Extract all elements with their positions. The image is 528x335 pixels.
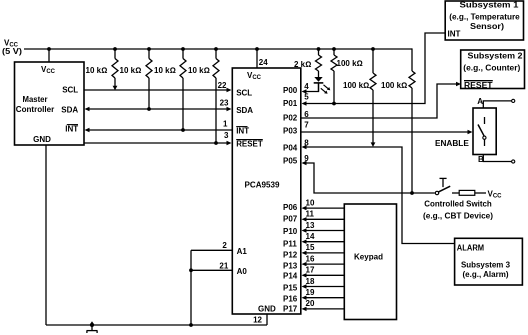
svg-text:Controller: Controller [16, 105, 55, 114]
svg-text:INT: INT [236, 127, 249, 136]
svg-text:P13: P13 [283, 262, 298, 271]
wire: P00 pin 4 to LED [302, 82, 319, 94]
Subsystem 1 box [445, 1, 523, 41]
wire: P02 pin 6 to Subsystem 2 RESET [301, 82, 461, 119]
svg-text:A0: A0 [237, 267, 248, 276]
svg-text:P12: P12 [283, 250, 298, 259]
svg-text:10 kΩ: 10 kΩ [188, 66, 210, 75]
svg-text:22: 22 [218, 81, 227, 90]
svg-text:P05: P05 [283, 157, 298, 166]
svg-text:Subsystem 1: Subsystem 1 [460, 1, 520, 10]
svg-text:P16: P16 [283, 295, 298, 304]
resistor R6 100 kOhm (P01 pull-up) [331, 49, 363, 105]
wire: RESET (Master to PCA9539 pin 3) [84, 131, 232, 145]
svg-text:PCA9539: PCA9539 [245, 180, 281, 189]
svg-text:100 kΩ: 100 kΩ [337, 59, 363, 68]
wire: P07 pin 11 to keypad [302, 210, 345, 222]
LED D1 [314, 77, 331, 94]
resistor R3 10 kOhm (INT pull-up) [154, 49, 186, 132]
svg-text:10 kΩ: 10 kΩ [86, 66, 108, 75]
svg-text:23: 23 [220, 99, 229, 108]
wire: P13 pin 16 to keypad [302, 254, 345, 266]
svg-text:P06: P06 [283, 203, 298, 212]
svg-text:P14: P14 [283, 272, 298, 281]
svg-text:A1: A1 [237, 247, 248, 256]
terminal B [478, 155, 515, 165]
svg-text:P10: P10 [283, 227, 298, 236]
svg-text:P01: P01 [283, 99, 298, 108]
svg-text:10 kΩ: 10 kΩ [120, 66, 142, 75]
svg-text:A: A [477, 97, 483, 106]
svg-text:12: 12 [253, 315, 262, 324]
ground [87, 321, 98, 333]
wire: P11 pin 14 to keypad [302, 232, 345, 244]
svg-text:21: 21 [219, 261, 228, 270]
op IC U2 PCA9539 box [232, 68, 300, 314]
svg-text:GND: GND [33, 135, 51, 144]
svg-text:100 kΩ: 100 kΩ [381, 81, 407, 90]
svg-text:(e.g., Alarm): (e.g., Alarm) [463, 270, 509, 279]
svg-text:18: 18 [306, 277, 315, 286]
svg-text:20: 20 [306, 299, 315, 308]
resistor R1 10 kOhm (SCL pull-up) [86, 49, 119, 90]
svg-text:P15: P15 [283, 283, 298, 292]
terminal A [477, 97, 515, 108]
svg-text:Subsystem 3: Subsystem 3 [461, 261, 511, 270]
svg-text:16: 16 [306, 254, 315, 263]
svg-text:(5 V): (5 V) [2, 47, 22, 56]
svg-text:17: 17 [306, 266, 315, 275]
wire: GND rail [46, 324, 267, 326]
resistor R9 (series, box style) [459, 190, 475, 195]
svg-text:3: 3 [224, 131, 229, 140]
svg-text:SDA: SDA [61, 106, 78, 115]
svg-text:13: 13 [306, 221, 315, 230]
resistor R8 100 kOhm (P05 pull-up, from rail end) [381, 48, 415, 195]
wire: SCL (Master to PCA9539 pin 22) [84, 81, 232, 92]
svg-text:P04: P04 [283, 143, 298, 152]
svg-text:P17: P17 [283, 304, 298, 313]
Subsystem 2 box [461, 50, 525, 90]
svg-text:RESET: RESET [464, 81, 493, 90]
svg-text:SCL: SCL [236, 88, 252, 97]
ENABLE switch SW1 box [473, 108, 496, 155]
svg-text:Master: Master [23, 95, 48, 104]
svg-text:10: 10 [306, 198, 315, 207]
svg-text:Sensor): Sensor) [470, 22, 504, 31]
svg-text:SCL: SCL [62, 86, 78, 95]
wire: rail to PCA9539 Vcc pin 24 [257, 49, 268, 68]
controlled switch SW2 [435, 178, 459, 194]
node: Vcc rail junction dots [47, 47, 375, 51]
Keypad box [344, 204, 396, 320]
resistor R5 2 kOhm (LED series) [294, 49, 322, 77]
svg-text:24: 24 [259, 58, 268, 67]
wire: P01 pin 5 to Subsystem 1 INT [302, 33, 446, 106]
wire: A0 pin 21 to ground [189, 261, 247, 276]
wire: rail to Master Controller Vcc [48, 49, 50, 62]
wire: PCA9539 GND pin 12 [253, 314, 267, 325]
Subsystem 3 box [455, 238, 523, 285]
svg-text:INT: INT [65, 125, 78, 134]
wire: P16 pin 19 to keypad [302, 288, 345, 300]
svg-text:2: 2 [222, 241, 227, 250]
wire: resistor to Vcc [475, 192, 486, 194]
svg-text:P11: P11 [283, 239, 297, 248]
svg-text:ALARM: ALARM [457, 244, 485, 253]
svg-text:100 kΩ: 100 kΩ [343, 81, 369, 90]
wire: P10 pin 13 to keypad [302, 221, 345, 233]
svg-text:9: 9 [304, 154, 309, 163]
svg-text:Controlled Switch: Controlled Switch [424, 200, 492, 209]
wire: P05 pin 9 to controlled switch [302, 154, 435, 193]
svg-text:P07: P07 [283, 214, 298, 223]
svg-text:ENABLE: ENABLE [435, 139, 469, 148]
wire: P14 pin 17 to keypad [302, 266, 345, 278]
wire: A1 pin 2 to ground [191, 241, 247, 256]
svg-text:INT: INT [448, 29, 461, 38]
Master Controller U1 box [15, 62, 85, 145]
wire: SDA (bidirectional) [85, 99, 232, 112]
svg-text:(e.g., Temperature: (e.g., Temperature [449, 12, 520, 21]
svg-text:5: 5 [304, 93, 309, 102]
svg-text:10 kΩ: 10 kΩ [154, 66, 176, 75]
resistor R7 100 kOhm (P04 pull-up) [343, 49, 376, 147]
svg-text:11: 11 [306, 210, 315, 219]
svg-text:(e.g., Counter): (e.g., Counter) [463, 64, 520, 73]
svg-text:GND: GND [258, 304, 276, 313]
wire: P17 pin 20 to keypad [302, 299, 345, 311]
wire: Master GND down [45, 145, 47, 325]
wire: P15 pin 18 to keypad [302, 277, 345, 289]
svg-text:19: 19 [306, 288, 315, 297]
wire: P06 pin 10 to keypad [302, 198, 345, 210]
wire: INT (PCA9539 pin 1 to Master) [85, 120, 233, 133]
svg-text:8: 8 [304, 138, 309, 147]
svg-text:P00: P00 [283, 86, 298, 95]
svg-text:P02: P02 [283, 113, 298, 122]
wire: P03 pin 7 to ENABLE switch [301, 121, 473, 135]
svg-text:2 kΩ: 2 kΩ [294, 60, 311, 69]
svg-text:6: 6 [304, 110, 309, 119]
svg-text:RESET: RESET [236, 140, 263, 149]
resistor R4 10 kOhm (RESET pull-up) [188, 49, 219, 145]
svg-text:4: 4 [304, 82, 309, 91]
wire: P12 pin 15 to keypad [302, 243, 345, 255]
svg-text:Subsystem 2: Subsystem 2 [468, 51, 524, 60]
svg-text:(e.g., CBT Device): (e.g., CBT Device) [423, 211, 493, 220]
svg-text:14: 14 [306, 232, 315, 241]
wire: P04 pin 8 to Subsystem 3 ALARM [302, 138, 455, 243]
svg-text:SDA: SDA [236, 106, 253, 115]
svg-text:15: 15 [306, 243, 315, 252]
wire: A1/A0 vertical to GND rail [189, 250, 193, 327]
wire: Vcc rail [24, 48, 412, 50]
svg-text:1: 1 [223, 120, 228, 129]
svg-text:7: 7 [304, 121, 309, 130]
svg-text:Keypad: Keypad [354, 252, 383, 261]
resistor R2 10 kOhm (SDA pull-up) [120, 49, 153, 111]
svg-text:P03: P03 [283, 127, 298, 136]
